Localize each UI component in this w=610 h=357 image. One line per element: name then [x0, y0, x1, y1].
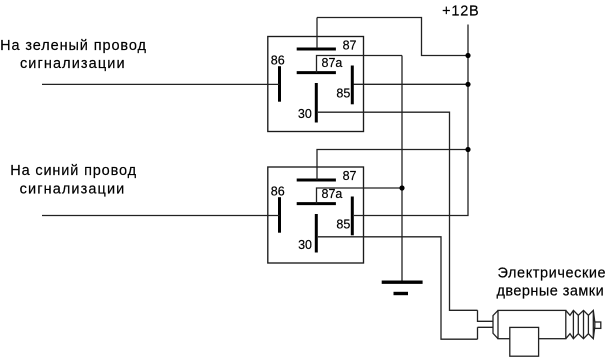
actuator nose: [493, 310, 498, 338]
relay K2 pin 30 contact bar: [315, 214, 318, 253]
svg-text:На синий провод: На синий провод: [10, 163, 137, 179]
relay K1 box: [268, 37, 364, 132]
ground symbol: [382, 281, 423, 284]
svg-text:сигнализации: сигнализации: [20, 181, 126, 197]
wire: K1 pin 86 to green alarm wire: [42, 83, 280, 85]
relay K1 pin 87 contact bar: [297, 48, 336, 51]
actuator connector block: [478, 310, 494, 339]
svg-text:87: 87: [343, 169, 357, 183]
svg-text:87: 87: [343, 38, 357, 52]
svg-text:дверные замки: дверные замки: [497, 283, 605, 299]
junction node: K1 87a / +12V top: [465, 53, 470, 58]
wire: +12V bus: [354, 25, 468, 216]
relay K1 pin 85 contact bar: [351, 66, 354, 105]
svg-text:+12В: +12В: [442, 4, 479, 20]
junction node: K2 87a / ground riser: [399, 185, 404, 190]
relay K2 box: [268, 167, 364, 263]
svg-text:87а: 87а: [322, 187, 343, 201]
actuator bellows: [566, 310, 595, 338]
wire: K2 pin 30 to actuator lower terminal: [318, 237, 478, 339]
relay K2 pin 85 contact bar: [351, 197, 354, 236]
svg-text:87а: 87а: [322, 56, 343, 70]
svg-text:30: 30: [298, 238, 312, 252]
wire: K1 pin 30 to actuator upper terminal: [318, 112, 478, 310]
actuator control unit box: [510, 327, 539, 356]
svg-text:86: 86: [271, 184, 285, 198]
wire: ground riser: [401, 56, 403, 282]
junction node: K1 85 / +12V: [465, 82, 470, 87]
junction node: K2 87 / +12V: [465, 147, 470, 152]
wire: K1 pin 87 riser: [316, 18, 318, 49]
wire: K2 pin 87a to ground riser: [317, 188, 403, 204]
svg-text:86: 86: [271, 53, 285, 67]
relay K2 pin 86 contact bar: [278, 197, 281, 233]
relay K1 pin 87a contact bar: [297, 71, 336, 74]
svg-text:85: 85: [336, 218, 350, 232]
wire: K2 pin 86 to blue alarm wire: [42, 215, 280, 217]
wire: K1 pin 85 to +12V bus: [354, 83, 469, 85]
svg-text:85: 85: [336, 87, 350, 101]
relay K1 pin 30 contact bar: [315, 83, 318, 123]
wire: K1 pin 87 top jog to +12V bus: [317, 18, 468, 56]
svg-text:30: 30: [298, 107, 312, 121]
svg-text:На зеленый провод: На зеленый провод: [0, 38, 147, 54]
actuator shaft pin: [595, 322, 601, 328]
relay K1 pin 86 contact bar: [278, 66, 281, 102]
svg-text:сигнализации: сигнализации: [20, 56, 126, 72]
wire: K1 pin 87a to ground riser: [317, 56, 403, 73]
wire: K2 pin 87 riser to +12V bus: [317, 150, 468, 181]
relay K2 pin 87a contact bar: [297, 202, 336, 205]
relay K2 pin 87 contact bar: [297, 179, 336, 182]
actuator body: [498, 310, 566, 338]
svg-text:Электрические: Электрические: [498, 265, 607, 281]
